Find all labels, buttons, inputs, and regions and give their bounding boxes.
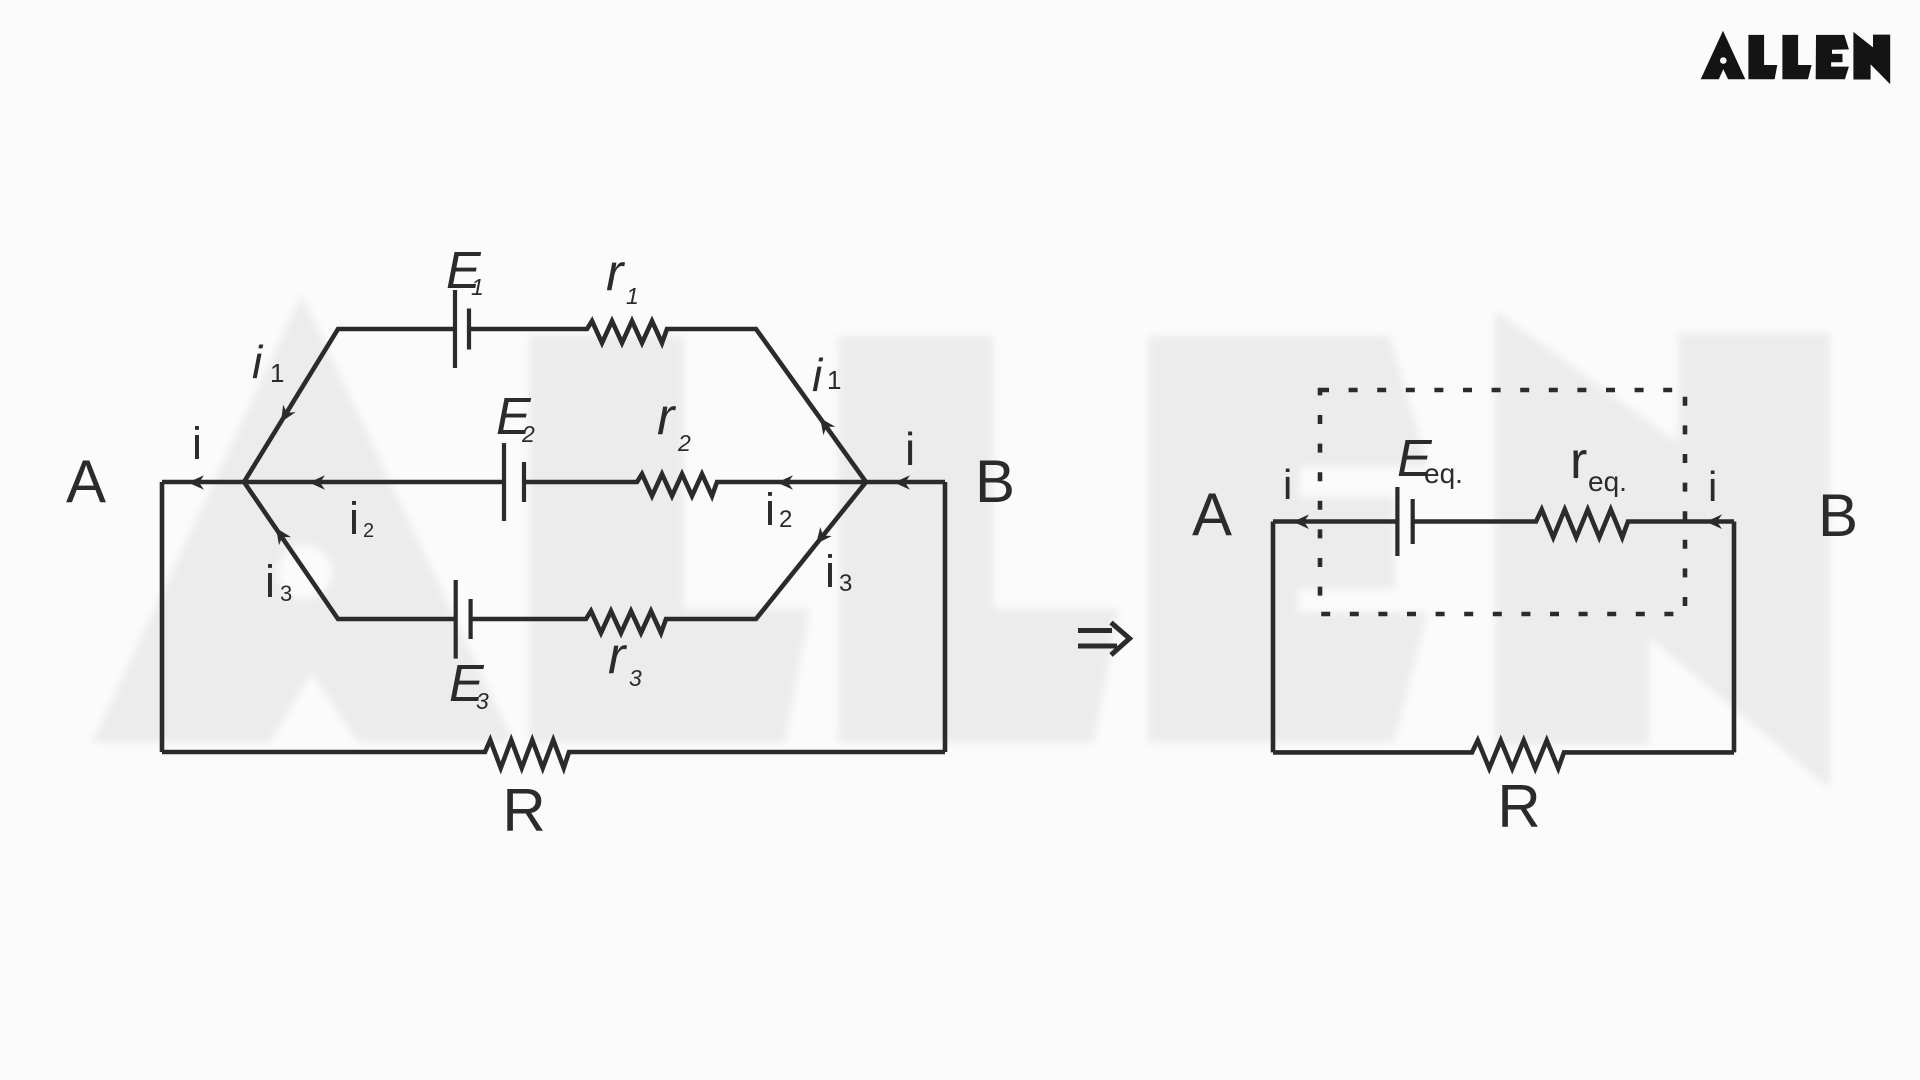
watermark letter L (second) xyxy=(838,336,1119,743)
battery E2 long plate xyxy=(502,443,506,521)
implies arrow lower bar xyxy=(1078,644,1117,649)
arrow i3 left diagonal xyxy=(276,528,291,545)
wire bottom with resistor R xyxy=(162,740,945,768)
watermark letter L (first) xyxy=(529,336,810,743)
svg-text:2: 2 xyxy=(779,506,792,533)
implies arrow symbol xyxy=(1078,623,1130,656)
svg-text:i: i xyxy=(905,423,915,475)
battery E1 xyxy=(455,290,469,368)
arrow i near A xyxy=(188,475,204,490)
svg-text:i: i xyxy=(812,349,824,401)
svg-text:2: 2 xyxy=(677,430,691,456)
wire bottom of right loop with resistor R xyxy=(1273,740,1734,768)
svg-text:i: i xyxy=(192,418,202,469)
battery E2 short plate xyxy=(522,462,526,502)
svg-text:1: 1 xyxy=(827,365,841,395)
battery E3 short plate xyxy=(469,599,473,639)
svg-text:r: r xyxy=(1570,432,1587,490)
svg-text:i: i xyxy=(349,493,359,544)
svg-text:3: 3 xyxy=(476,688,489,714)
arrow i2 right xyxy=(777,475,793,490)
svg-text:eq.: eq. xyxy=(1588,466,1627,497)
svg-text:A: A xyxy=(1192,481,1232,548)
svg-text:i: i xyxy=(252,336,264,388)
arrow i1 left diagonal xyxy=(281,405,296,422)
svg-text:3: 3 xyxy=(839,570,852,597)
ALLEN logo (top right) xyxy=(1701,31,1891,85)
svg-text:i: i xyxy=(1708,463,1717,510)
svg-text:2: 2 xyxy=(521,421,535,447)
battery Eeq xyxy=(1397,487,1412,556)
svg-text:R: R xyxy=(502,777,545,844)
arrow i near A (right circuit) xyxy=(1293,514,1309,529)
wire left edge of outer loop xyxy=(160,482,165,752)
wire right edge of right loop xyxy=(1732,522,1737,753)
watermark letter E xyxy=(1148,336,1428,743)
arrow i3 right diagonal xyxy=(816,527,832,544)
watermark letter N xyxy=(1495,310,1830,789)
svg-text:R: R xyxy=(1497,773,1540,840)
dashed equivalent-source box xyxy=(1320,390,1685,614)
arrow i1 right diagonal xyxy=(820,418,835,435)
implies arrow chevron xyxy=(1111,623,1130,656)
wire top branch left diagonal to battery E1 xyxy=(244,329,455,482)
battery E2 xyxy=(504,443,524,521)
svg-text:r: r xyxy=(608,627,628,685)
svg-text:B: B xyxy=(975,448,1015,515)
svg-text:3: 3 xyxy=(629,665,642,691)
wire top branch with resistor r1 and right diagonal xyxy=(469,321,866,482)
wire bottom branch left diagonal to battery E3 xyxy=(244,482,456,619)
watermark letter A xyxy=(92,294,514,742)
svg-text:i: i xyxy=(765,484,775,535)
svg-text:i: i xyxy=(825,546,835,597)
svg-text:1: 1 xyxy=(471,274,484,300)
svg-text:r: r xyxy=(606,244,626,302)
battery E1 short plate xyxy=(467,309,471,350)
battery E3 xyxy=(456,580,471,659)
battery Eeq long plate xyxy=(1395,487,1399,556)
wire right edge of outer loop xyxy=(943,482,948,752)
wire top of right loop with resistor req xyxy=(1413,510,1734,538)
svg-text:2: 2 xyxy=(363,520,374,542)
wire left edge of right loop xyxy=(1271,522,1276,753)
svg-text:1: 1 xyxy=(626,283,639,309)
svg-text:r: r xyxy=(657,388,677,446)
battery E1 long plate xyxy=(453,290,457,368)
svg-text:1: 1 xyxy=(270,358,284,388)
battery Eeq short plate xyxy=(1411,499,1415,544)
svg-text:i: i xyxy=(1283,461,1292,508)
implies arrow upper bar xyxy=(1078,628,1112,633)
svg-text:A: A xyxy=(66,448,106,515)
battery E3 long plate xyxy=(454,580,458,659)
wire middle A-side segment (A node to battery E2) xyxy=(162,480,504,485)
svg-text:B: B xyxy=(1818,482,1858,549)
watermark ALLEN (large, blurred) xyxy=(92,294,1830,789)
wire middle with resistor r2 xyxy=(524,474,945,496)
svg-text:i: i xyxy=(265,556,275,607)
svg-text:eq.: eq. xyxy=(1424,458,1463,489)
arrow i near B (right circuit) xyxy=(1706,514,1722,529)
svg-text:3: 3 xyxy=(280,581,292,606)
wire top of right loop (A side to battery Eeq) xyxy=(1273,519,1397,524)
arrow i2 left xyxy=(309,475,325,490)
arrow i near B xyxy=(894,475,910,490)
wire bottom branch with resistor r3 and right diagonal xyxy=(471,482,866,633)
